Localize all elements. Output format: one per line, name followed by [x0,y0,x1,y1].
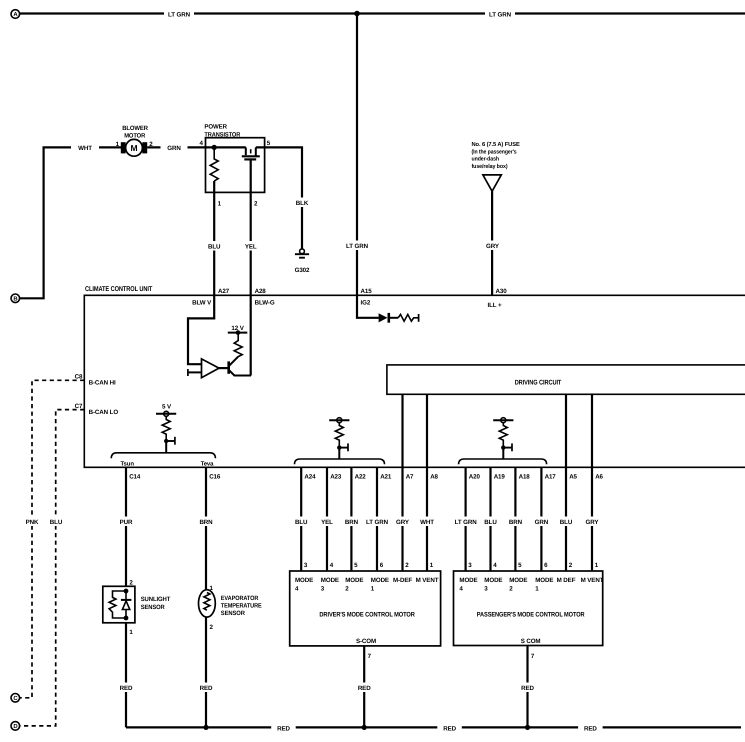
svg-text:A28: A28 [255,288,267,295]
wire evaporator RED to bus [205,617,207,727]
svg-text:SENSOR: SENSOR [221,610,246,617]
junction node 5V divider [164,439,168,443]
value label PNK [20,517,44,527]
value label GRY [480,241,505,251]
svg-text:BLW-G: BLW-G [255,300,275,307]
svg-text:MODE: MODE [484,577,502,584]
svg-text:YEL: YEL [321,519,333,526]
svg-text:BLK: BLK [296,200,309,207]
resistor pull-up passenger [499,423,507,448]
svg-text:G302: G302 [295,267,310,274]
svg-text:IG2: IG2 [361,300,371,307]
svg-text:B-CAN HI: B-CAN HI [89,380,116,387]
net label MODE 3 driver [321,577,339,593]
value label BRN A22 [339,517,363,527]
value label BLU A19 [479,517,503,527]
junction node bus driver com [362,725,367,730]
value label RED bus right [578,723,603,733]
resistor ILL series [398,314,418,321]
junction node sunlight bottom [124,616,129,621]
wire driving circuit to A6 [591,394,593,571]
wire A19 column [489,467,491,571]
wire bottom bus RED [126,726,741,728]
svg-text:(In the passenger's: (In the passenger's [472,148,517,155]
wire input inside power transistor [206,146,246,148]
value label RED bus middle [437,723,462,733]
wire driver divider to bracket [338,448,340,459]
wire passenger divider to bracket [502,448,504,459]
svg-text:5 V: 5 V [162,404,172,411]
net label MODE 2 passenger [509,577,527,593]
value label LT GRN A21 [362,517,392,527]
wire A18 column [514,467,516,571]
junction node bus passenger com [525,725,530,730]
wire 5V to Tsun bracket [165,441,167,453]
connector circle A [11,10,20,19]
FET Q1 inside power transistor [242,147,260,159]
svg-text:MODE: MODE [321,577,339,584]
svg-text:EVAPORATOR: EVAPORATOR [221,595,259,602]
wire dashed B-CAN LO BLU [20,410,85,726]
svg-text:Teva: Teva [201,461,215,468]
svg-text:PUR: PUR [120,519,133,526]
svg-text:BRN: BRN [199,519,213,526]
ground G302 [295,249,310,274]
supply bar with circle 5V [156,411,176,416]
driver's mode control motor box [290,571,441,646]
svg-text:A21: A21 [380,474,392,481]
connector circle C [11,694,20,703]
diode D1 [379,313,389,323]
wire diode to resistor [390,317,398,319]
wire sunlight RED to bus [125,623,127,728]
value label BRN A18 [503,517,527,527]
svg-text:WHT: WHT [420,519,434,526]
wire comparator output to base [219,367,229,369]
value label RED bus left [271,723,296,733]
transistor Q2 emitter [229,370,251,376]
value label BLU A5 [554,517,578,527]
svg-text:BLOWER: BLOWER [122,125,148,132]
power transistor box [206,138,265,193]
net label MODE 1 passenger [535,577,553,593]
value label YEL [239,241,264,251]
svg-text:A27: A27 [218,288,230,295]
junction node driver divider [337,445,341,449]
value label BRN C16 [194,517,218,527]
terminal bar ILL resistor [418,314,420,322]
svg-text:TEMPERATURE: TEMPERATURE [221,602,262,609]
svg-text:LT GRN: LT GRN [455,519,478,526]
connector circle B [11,294,20,303]
driving circuit box [387,365,745,394]
wire GRN blower to power transistor [147,146,205,148]
value label YEL A23 [315,517,339,527]
value label BLU on B-CAN LO [44,517,68,527]
terminal tick driver [339,443,348,451]
svg-text:MODE: MODE [459,577,477,584]
wire dashed B-CAN HI PNK [20,380,85,698]
svg-text:S COM: S COM [521,638,541,645]
value label PUR [114,517,138,527]
svg-text:M VENT: M VENT [581,577,604,584]
svg-text:YEL: YEL [245,244,257,251]
wire pin2 YEL to A28 [250,159,252,295]
svg-text:A19: A19 [494,474,506,481]
connector circle D [11,722,20,731]
junction node on bus A [354,11,360,17]
svg-text:A23: A23 [330,474,342,481]
power transistor label [204,124,240,139]
wire passenger S-COM pin 7 [526,646,528,728]
svg-text:A22: A22 [355,474,367,481]
svg-text:MODE: MODE [535,577,553,584]
svg-text:M DEF: M DEF [557,577,576,584]
resistor pull-up 12V [234,333,242,357]
svg-text:GRY: GRY [586,519,600,526]
passenger's mode control motor box [454,571,603,646]
junction node sunlight top [124,589,129,594]
svg-text:A18: A18 [519,474,531,481]
supply bar 12 V [228,325,248,335]
svg-text:A7: A7 [406,474,414,481]
svg-text:SENSOR: SENSOR [141,604,165,611]
svg-text:GRN: GRN [167,145,181,152]
resistor inside power transistor [210,147,218,181]
wire GRY fuse to A30 [491,191,493,295]
bracket passenger pins [459,459,547,464]
svg-text:A5: A5 [569,474,577,481]
sunlight sensor box [103,586,135,623]
svg-text:BLU: BLU [295,519,308,526]
wire A17 column [540,467,542,571]
wire C16 column [205,467,207,590]
svg-text:MODE: MODE [371,577,389,584]
svg-text:RED: RED [277,725,290,732]
svg-text:S-COM: S-COM [356,638,376,645]
svg-text:A6: A6 [595,474,603,481]
svg-text:RED: RED [358,685,371,692]
svg-text:RED: RED [443,725,456,732]
wire IG2 branch [357,295,379,318]
resistor pull-up 5V [162,416,170,441]
svg-text:No. 6 (7.5 A) FUSE: No. 6 (7.5 A) FUSE [472,141,520,148]
svg-text:M VENT: M VENT [416,577,439,584]
value label WHT [71,143,99,152]
svg-text:WHT: WHT [78,145,92,152]
wire A20 column [465,467,467,571]
svg-text:MODE: MODE [345,577,363,584]
wire C14 column [125,467,127,586]
wire pin5 BLK to ground [256,147,302,249]
svg-text:GRY: GRY [396,519,410,526]
value label BLU [202,241,227,251]
svg-text:BLU: BLU [484,519,497,526]
svg-text:RED: RED [200,685,213,692]
supply bar with circle driver [329,418,349,423]
value label LT GRN A20 [451,517,481,527]
wire A24 column [300,467,302,571]
svg-text:POWER: POWER [204,124,227,131]
junction node passenger divider [501,445,505,449]
svg-text:C14: C14 [129,474,141,481]
svg-text:GRN: GRN [535,519,549,526]
svg-text:A20: A20 [469,474,481,481]
svg-text:fuse/relay box): fuse/relay box) [472,163,508,170]
junction node power transistor input [212,145,217,150]
net label MODE 4 driver [295,577,313,593]
wire driving circuit to A8 [426,394,428,571]
wire pin1 BLU to A27 [213,181,215,295]
svg-text:C16: C16 [209,474,221,481]
svg-text:BLU: BLU [50,519,63,526]
evaporator sensor label [221,595,262,617]
svg-text:D: D [13,723,17,730]
photodiode inside sunlight sensor [121,591,131,618]
value label RED passenger com [516,683,540,693]
svg-text:PNK: PNK [26,519,39,526]
value label LT GRN right [485,9,515,19]
svg-text:LT GRN: LT GRN [168,12,191,19]
svg-text:A15: A15 [361,288,373,295]
bracket Tsun Teva [111,453,215,459]
svg-text:Tsun: Tsun [120,461,134,468]
sunlight sensor label [141,596,171,611]
value label RED driver com [352,683,376,693]
blower motor label [122,125,148,140]
wire from B up to blower motor [20,147,121,298]
svg-text:LT GRN: LT GRN [366,519,389,526]
terminal tick 5V [166,437,175,445]
value label GRY A6 [580,517,604,527]
svg-text:ILL +: ILL + [488,302,502,309]
wire A21 column [376,467,378,571]
svg-text:M-DEF: M-DEF [393,577,412,584]
svg-text:BRN: BRN [345,519,359,526]
value label LT GRN on A15 wire [342,241,372,251]
svg-text:BLU: BLU [560,519,573,526]
value label GRY A7 [391,517,415,527]
svg-text:LT GRN: LT GRN [489,12,512,19]
svg-text:B: B [13,296,17,303]
value label RED sunlight [114,683,138,693]
value label BLK [290,198,314,208]
svg-text:B-CAN LO: B-CAN LO [89,409,119,416]
svg-text:LT GRN: LT GRN [346,243,369,250]
value label LT GRN left [164,9,194,19]
op-amp comparator triangle [202,359,220,378]
fuse symbol triangle [483,175,501,191]
value label RED evaporator [194,683,218,693]
svg-text:GRY: GRY [486,243,500,250]
wire LT GRN vertical to A15 [356,14,358,296]
svg-text:DRIVING CIRCUIT: DRIVING CIRCUIT [515,380,562,387]
wire driving circuit to A7 [401,394,403,571]
wire driver S-COM pin 7 [363,646,365,728]
svg-text:A8: A8 [430,474,438,481]
resistor pull-up driver [335,423,343,448]
svg-text:BLW V: BLW V [192,300,212,307]
svg-text:MODE: MODE [509,577,527,584]
svg-text:MODE: MODE [295,577,313,584]
wire A22 column [350,467,352,571]
svg-text:MOTOR: MOTOR [124,133,146,140]
wire A27 to comparator input [188,295,214,364]
fuse note text [472,141,520,170]
net label MODE 3 passenger [484,577,502,593]
wire A28 inside to emitter [250,295,252,375]
net label MODE 2 driver [345,577,363,593]
comparator second input with terminal bar [188,369,202,376]
svg-text:M: M [131,143,138,153]
svg-text:DRIVER'S MODE CONTROL MOTOR: DRIVER'S MODE CONTROL MOTOR [319,612,415,619]
svg-text:RED: RED [521,685,534,692]
transistor Q2 base bar [227,361,230,373]
svg-text:BRN: BRN [509,519,523,526]
svg-text:under-dash: under-dash [472,156,500,163]
bracket driver pins [295,459,385,464]
value label GRN [161,143,188,152]
transistor Q2 collector [229,357,239,367]
svg-text:PASSENGER'S MODE CONTROL MOTOR: PASSENGER'S MODE CONTROL MOTOR [477,612,585,619]
resistor inside sunlight sensor [109,591,126,618]
svg-text:RED: RED [120,685,133,692]
blower motor M1 symbol [121,139,147,156]
svg-text:A17: A17 [545,474,557,481]
evaporator temperature sensor symbol [199,590,216,617]
value label WHT A8 [413,517,441,527]
svg-text:12 V: 12 V [231,325,244,332]
svg-text:SUNLIGHT: SUNLIGHT [141,596,171,603]
net label MODE 1 driver [371,577,389,593]
svg-text:A24: A24 [304,474,316,481]
terminal tick passenger [503,443,512,451]
svg-text:BLU: BLU [208,244,221,251]
supply bar with circle passenger [493,418,513,423]
wire A23 column [326,467,328,571]
value label BLU A24 [289,517,313,527]
junction node bus evaporator [203,725,208,730]
svg-text:RED: RED [584,725,597,732]
net label MODE 4 passenger [459,577,477,593]
wire bus A top LT GRN [20,12,745,14]
value label GRN A17 [529,517,553,527]
wire driving circuit to A5 [565,394,567,571]
climate control unit box [84,295,745,467]
svg-text:CLIMATE CONTROL UNIT: CLIMATE CONTROL UNIT [85,286,153,293]
svg-text:A30: A30 [496,288,508,295]
